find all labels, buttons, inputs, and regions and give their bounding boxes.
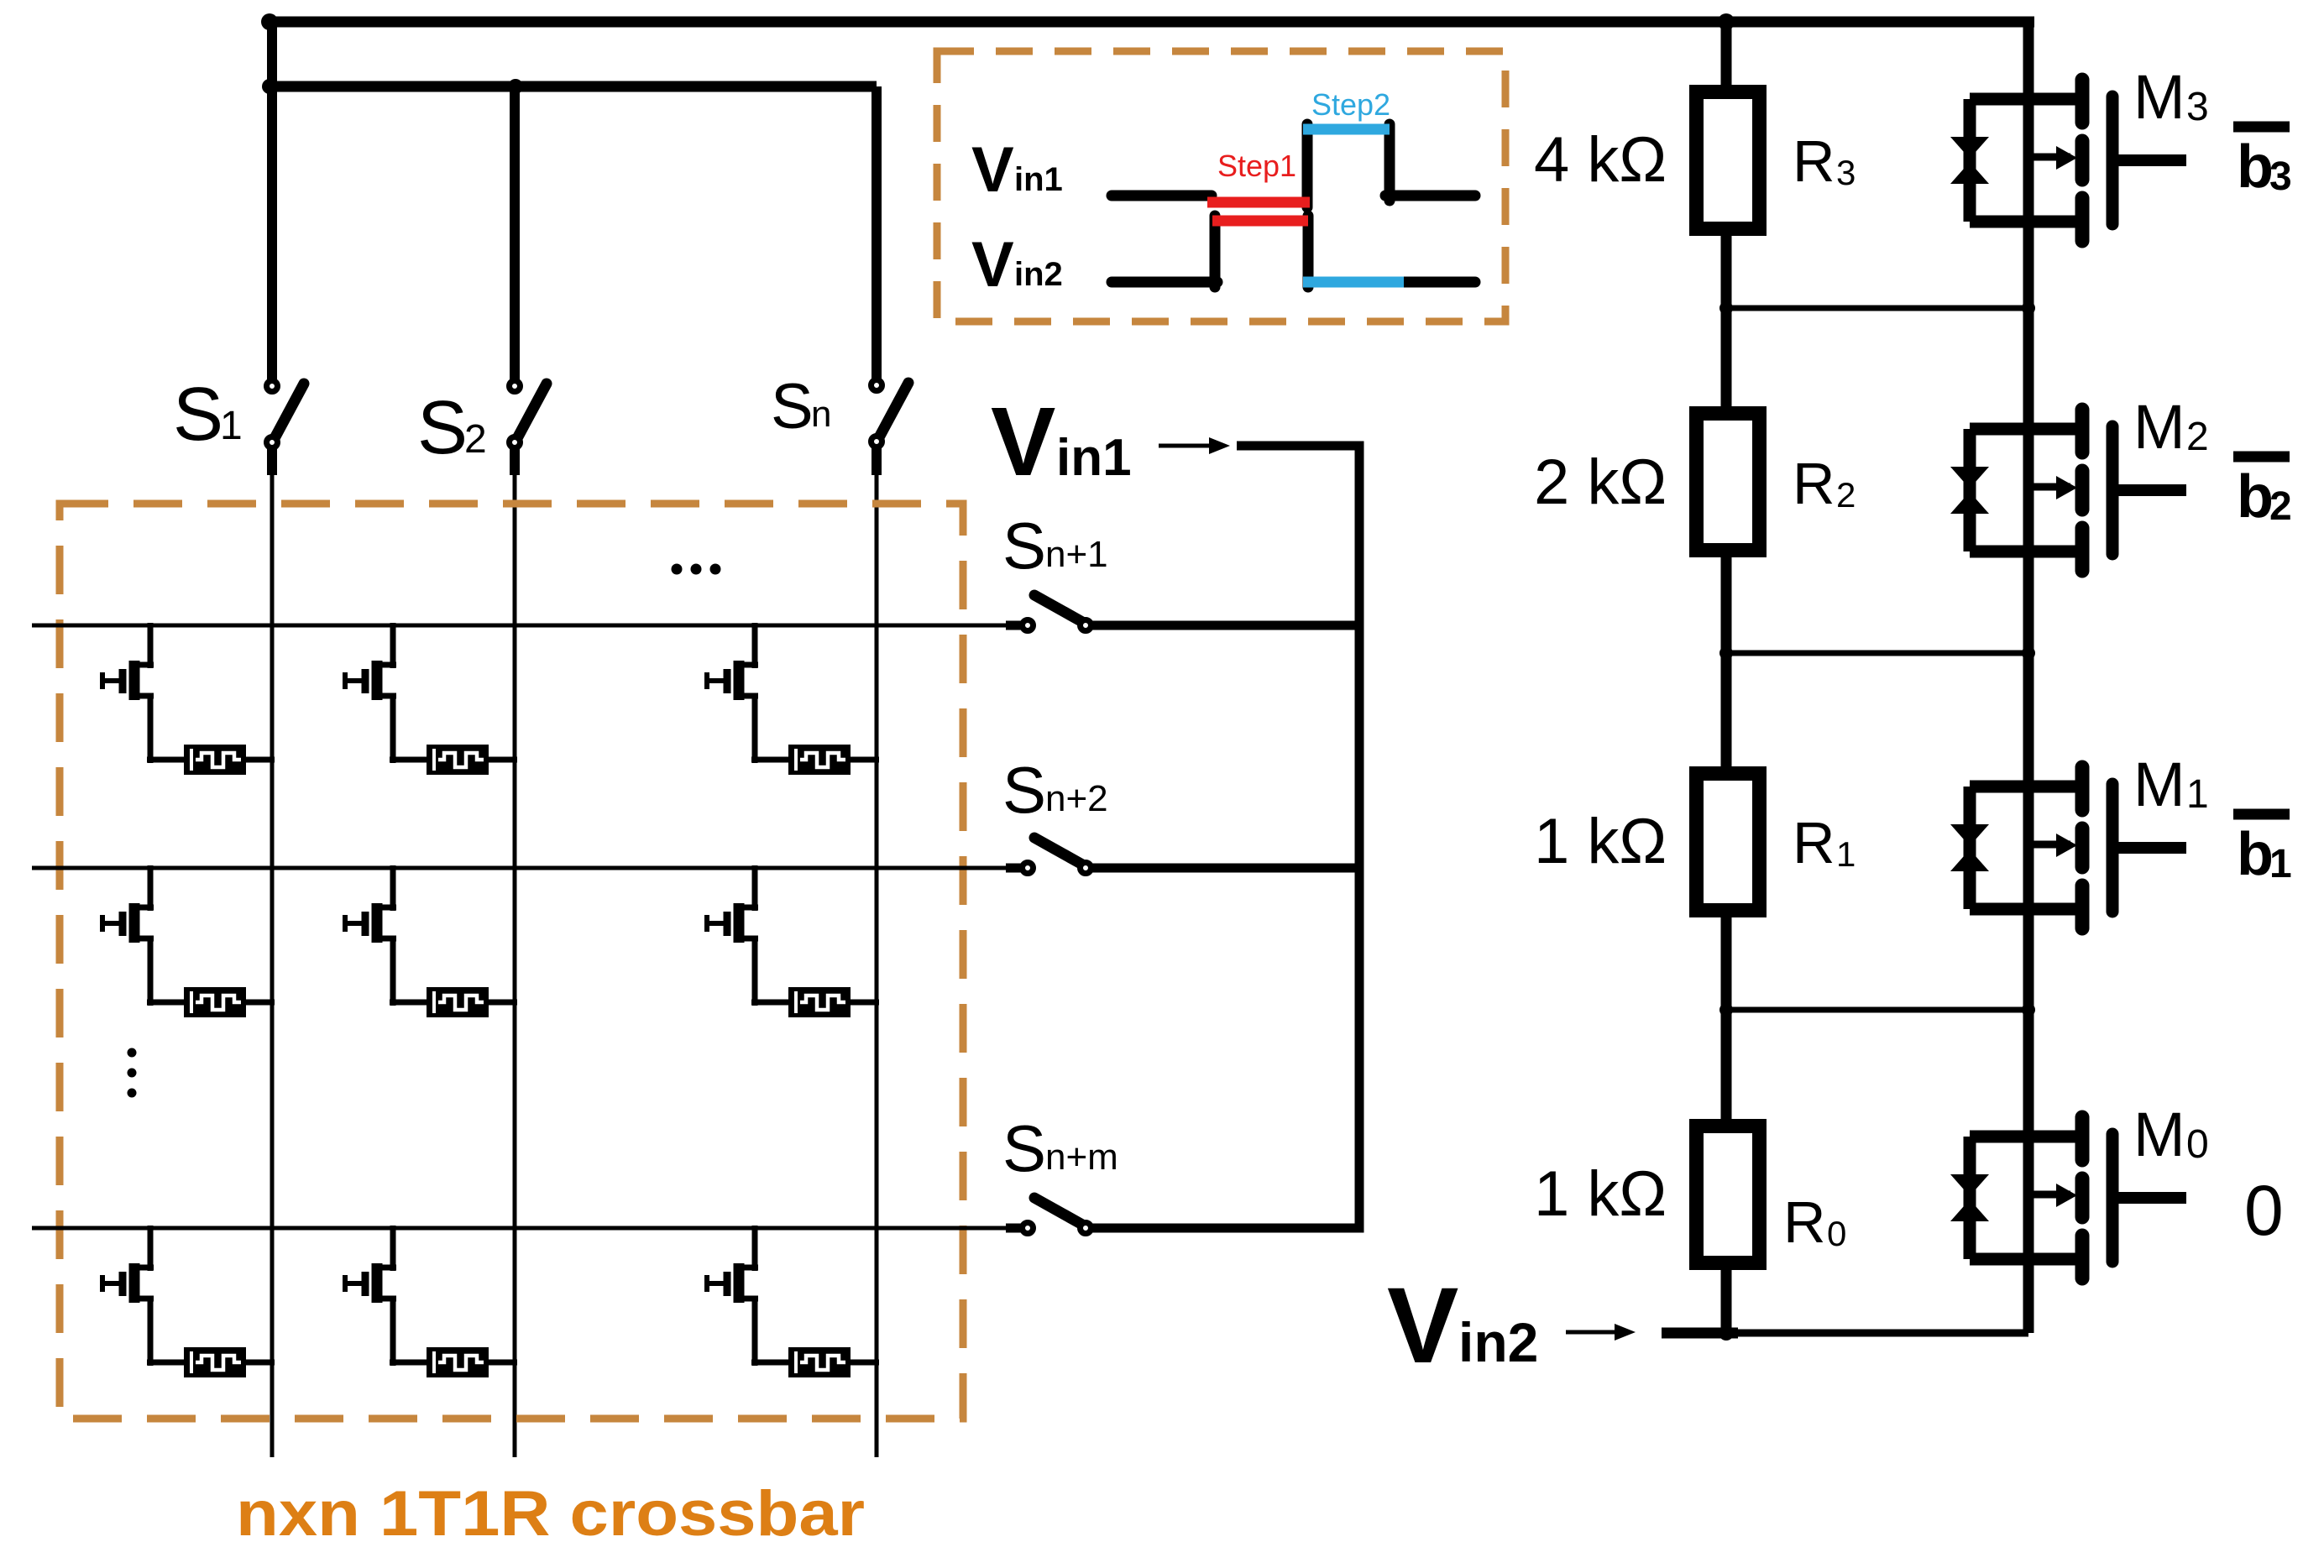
crossbar boundary (orange dashed box) (60, 504, 963, 1419)
resistor R1 (1697, 774, 1760, 911)
wire: ladder node line 1 (1726, 306, 2028, 311)
wire: switch Sn+2 to Vin1 bus (1091, 864, 1359, 873)
wire: right bus through transistors M3..M0 (2023, 17, 2034, 1333)
crossbar cell transistor row 3 col 2 (345, 1226, 396, 1366)
svg-text:S: S (1002, 509, 1046, 583)
svg-text:0: 0 (1827, 1214, 1846, 1253)
wire: second horizontal bus linking S1 S2 Sn columns (267, 81, 877, 92)
svg-text:1: 1 (2186, 772, 2209, 817)
svg-text:in1: in1 (1014, 161, 1063, 198)
wire: top horizontal bus from S1 column to right ladder (267, 17, 2034, 28)
crossbar cell memristor row 1 col 2 (390, 745, 517, 775)
svg-text:V: V (1387, 1266, 1458, 1386)
svg-text:b: b (2237, 133, 2274, 201)
node dots on ladder node line 1 (1719, 301, 1733, 315)
wire: resistor ladder column (left vertical) (1721, 22, 1732, 1333)
svg-text:S: S (417, 386, 468, 470)
svg-text:Step2: Step2 (1311, 87, 1390, 122)
svg-text:1 kΩ: 1 kΩ (1534, 806, 1667, 877)
svg-text:in2: in2 (1458, 1311, 1538, 1373)
crossbar cell transistor row 3 col 3 (707, 1226, 758, 1366)
svg-text:M: M (2133, 62, 2185, 132)
wire: S1 column from top bus to switch (267, 22, 277, 382)
svg-text:2: 2 (2269, 484, 2292, 529)
svg-text:R: R (1793, 128, 1835, 194)
wire: crossbar column 1 below switch (267, 446, 277, 475)
svg-text:M: M (2133, 1100, 2185, 1169)
switch S1 (267, 381, 305, 448)
svg-text:n+1: n+1 (1045, 534, 1108, 575)
svg-text:V: V (991, 387, 1055, 496)
svg-text:V: V (971, 134, 1014, 206)
vertical ellipsis dots between row 2 and row m (128, 1048, 137, 1058)
svg-text:n+m: n+m (1045, 1137, 1118, 1178)
wire: Vin1 vertical bus with top stub and bottom corner to switch Sn+m (1091, 446, 1359, 1228)
wire: S2 column from second bus to switch (510, 86, 520, 382)
svg-text:n: n (811, 394, 831, 435)
svg-text:Step1: Step1 (1217, 149, 1296, 183)
svg-text:R: R (1783, 1189, 1826, 1255)
switch Sn+2 (1023, 838, 1091, 874)
svg-text:V: V (971, 229, 1014, 301)
wire: crossbar column 2 below switch (510, 446, 520, 475)
crossbar cell memristor row 1 col 3 (751, 745, 879, 775)
arrow from Vin1 label to bus (1159, 444, 1211, 448)
node dot: junction of bottom line with ladder column (1719, 1325, 1734, 1341)
crossbar cell transistor row 1 col 3 (707, 623, 758, 763)
waveform Vin2 Step1 segment (red) (1212, 216, 1308, 227)
waveform inset boundary (orange dashed box) (937, 51, 1505, 321)
svg-text:in2: in2 (1014, 256, 1063, 293)
gate label b-bar3 for M3 (2233, 122, 2290, 133)
transistor M2 (1950, 410, 2186, 571)
svg-text:1: 1 (220, 404, 243, 448)
svg-text:R: R (1793, 810, 1835, 875)
wire: bottom line from Vin2 to right bus (1662, 1330, 2028, 1337)
svg-text:0: 0 (2244, 1171, 2284, 1250)
svg-text:3: 3 (2269, 154, 2292, 199)
crossbar cell memristor row 3 col 1 (147, 1347, 275, 1377)
crossbar cell transistor row 3 col 1 (102, 1226, 154, 1366)
svg-text:2: 2 (2186, 415, 2209, 459)
waveform Vin1 trace (black segments) (1112, 191, 1212, 201)
node dots on ladder node line 2 (1719, 646, 1733, 660)
svg-text:1: 1 (1836, 834, 1856, 874)
crossbar cell memristor row 3 col 2 (390, 1347, 517, 1377)
wire: Sn column from second bus to switch (871, 86, 882, 382)
svg-text:S: S (173, 373, 223, 457)
crossbar cell transistor row 1 col 2 (345, 623, 396, 763)
svg-text:S: S (1002, 753, 1046, 827)
transistor M1 (1950, 767, 2186, 928)
crossbar cell memristor row 3 col 3 (751, 1347, 879, 1377)
waveform Vin1 Step1 segment (red) (1207, 197, 1310, 208)
node dot at left end of top bus (261, 13, 278, 30)
wire: ladder node line 3 (1726, 1007, 2028, 1013)
svg-text:0: 0 (2186, 1122, 2209, 1167)
crossbar cell transistor row 2 col 1 (102, 865, 154, 1006)
svg-text:M: M (2133, 392, 2185, 462)
node dots on ladder node line 3 (1719, 1003, 1733, 1017)
transistor M0 (1950, 1117, 2186, 1278)
switch Sn+m (1023, 1198, 1091, 1234)
svg-text:2: 2 (1836, 475, 1856, 515)
svg-text:b: b (2237, 463, 2274, 531)
svg-text:b: b (2237, 821, 2274, 888)
wire: crossbar column 3 below switch (871, 446, 882, 475)
resistor R0 (1697, 1126, 1760, 1263)
switch Sn+1 (1023, 595, 1091, 631)
wire: crossbar row line 3 (32, 1226, 1006, 1231)
node dot at left end of second bus (262, 79, 277, 94)
wire: ladder node line 2 (1726, 651, 2028, 656)
svg-text:1: 1 (2269, 842, 2292, 886)
arrow from Vin2 label to bottom wire (1566, 1330, 1616, 1335)
crossbar cell memristor row 2 col 3 (751, 987, 879, 1017)
waveform Vin1 Step2 segment (blue) (1303, 124, 1390, 135)
svg-text:2: 2 (464, 417, 487, 462)
svg-text:3: 3 (1836, 153, 1856, 192)
crossbar cell transistor row 2 col 3 (707, 865, 758, 1006)
ellipsis dots between column 2 and column n (672, 564, 683, 575)
svg-text:2 kΩ: 2 kΩ (1534, 447, 1667, 518)
crossbar cell memristor row 2 col 1 (147, 987, 275, 1017)
svg-text:4 kΩ: 4 kΩ (1534, 124, 1667, 196)
svg-text:3: 3 (2186, 85, 2209, 129)
resistor R3 (1697, 92, 1760, 229)
transistor M3 (1950, 80, 2186, 241)
switch Sn (871, 380, 909, 447)
waveform Vin2 Step2 segment (blue) (1303, 277, 1404, 288)
waveform Vin2 trace (black segments) (1112, 277, 1217, 288)
wire: crossbar row line 2 (32, 866, 1006, 870)
svg-text:S: S (1002, 1111, 1046, 1185)
gate label b-bar2 for M2 (2233, 452, 2290, 463)
node dot: junction of top bus with resistor-ladder column (1718, 13, 1735, 30)
crossbar cell memristor row 1 col 1 (147, 745, 275, 775)
resistor R2 (1697, 414, 1760, 551)
svg-text:1 kΩ: 1 kΩ (1534, 1158, 1667, 1230)
svg-text:S: S (771, 371, 814, 442)
crossbar cell transistor row 2 col 2 (345, 865, 396, 1006)
wire: switch Sn+1 to Vin1 bus (1091, 621, 1359, 630)
svg-text:in1: in1 (1056, 429, 1132, 487)
crossbar cell memristor row 2 col 2 (390, 987, 517, 1017)
svg-text:R: R (1793, 451, 1835, 516)
crossbar cell transistor row 1 col 1 (102, 623, 154, 763)
wire: crossbar row line 1 (32, 624, 1006, 628)
gate label b-bar1 for M1 (2233, 809, 2290, 820)
svg-text:n+2: n+2 (1045, 778, 1108, 819)
svg-text:M: M (2133, 750, 2185, 819)
node dot: junction of second bus with S2 column (508, 79, 523, 94)
switch S2 (510, 381, 547, 448)
svg-text:nxn 1T1R crossbar: nxn 1T1R crossbar (236, 1478, 865, 1550)
